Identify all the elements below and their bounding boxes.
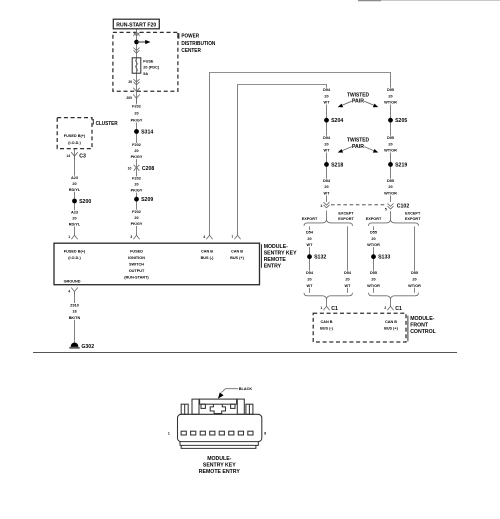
wire label D55 20 WT/OR top bbox=[384, 88, 397, 105]
svg-text:C208: C208 bbox=[142, 166, 155, 172]
svg-text:20: 20 bbox=[72, 217, 76, 221]
svg-text:REMOTE: REMOTE bbox=[264, 257, 287, 263]
svg-text:20: 20 bbox=[307, 277, 311, 281]
svg-text:1: 1 bbox=[320, 306, 322, 310]
connector left tall tab bbox=[192, 399, 199, 414]
svg-text:MODULE-: MODULE- bbox=[410, 316, 434, 322]
svg-text:4: 4 bbox=[68, 289, 70, 293]
label export (D54) bbox=[302, 217, 318, 221]
svg-text:FUSED B(+): FUSED B(+) bbox=[64, 249, 86, 253]
pin name CAN B bus(+) bbox=[230, 249, 245, 260]
label except export (D54) bbox=[338, 212, 354, 221]
merge brace D54 bbox=[304, 293, 353, 299]
wire: run-start F20 feed down through PDC fuse to SKREEM pin 3 bbox=[136, 29, 138, 232]
svg-text:WT/OR: WT/OR bbox=[384, 192, 397, 196]
section divider rule bbox=[33, 352, 457, 354]
svg-text:S204: S204 bbox=[331, 118, 343, 124]
wire label D55 20 WT/OR low bbox=[384, 179, 397, 196]
svg-text:SENTRY KEY: SENTRY KEY bbox=[264, 250, 297, 256]
wire label F202 20 PK/GY (4) bbox=[130, 210, 143, 226]
svg-text:A23: A23 bbox=[71, 176, 78, 180]
svg-text:REMOTE ENTRY: REMOTE ENTRY bbox=[199, 469, 241, 475]
svg-text:D55: D55 bbox=[370, 271, 377, 275]
svg-text:IGNITION: IGNITION bbox=[128, 256, 145, 260]
svg-text:(I.O.D.): (I.O.D.) bbox=[68, 256, 81, 260]
svg-text:200: 200 bbox=[126, 96, 132, 100]
splice S218 bbox=[324, 162, 343, 168]
label export (D55) bbox=[366, 217, 382, 221]
svg-text:PK/GY: PK/GY bbox=[131, 155, 143, 159]
wire: merge brace to FCM pin 2 bbox=[390, 299, 392, 303]
connector skirt step 2 bbox=[181, 445, 256, 448]
arrow out of PDC box bbox=[133, 88, 139, 92]
svg-text:CENTER: CENTER bbox=[181, 48, 201, 54]
svg-text:BUS (+): BUS (+) bbox=[384, 327, 399, 331]
svg-text:CAN B: CAN B bbox=[201, 249, 213, 253]
svg-text:EXPORT: EXPORT bbox=[405, 217, 421, 221]
connector fork 200 bbox=[126, 94, 139, 103]
svg-text:14: 14 bbox=[66, 154, 70, 158]
svg-text:8: 8 bbox=[264, 432, 266, 436]
connector right outer tab bbox=[246, 404, 253, 414]
svg-text:WT: WT bbox=[324, 192, 331, 196]
svg-text:CONTROL: CONTROL bbox=[410, 329, 436, 335]
wire label D55 20 WT/OR lower b bbox=[408, 271, 421, 288]
svg-text:TWISTED: TWISTED bbox=[347, 92, 369, 98]
wire: riser from SKREEM pin 7 up and over to D54 chain down to C102 bbox=[238, 85, 327, 232]
label power distribution center bbox=[177, 34, 216, 54]
svg-text:WT: WT bbox=[307, 284, 314, 288]
wire label F202 20 PK/GY (2) bbox=[130, 143, 143, 159]
svg-text:20: 20 bbox=[371, 237, 375, 241]
merge brace D55 bbox=[369, 293, 419, 299]
svg-text:5: 5 bbox=[385, 207, 387, 211]
svg-text:10: 10 bbox=[128, 167, 132, 171]
svg-text:SWITCH: SWITCH bbox=[129, 263, 144, 267]
svg-text:20: 20 bbox=[412, 277, 416, 281]
label cluster bbox=[93, 119, 117, 127]
wire: except-export branch D54 bbox=[347, 226, 349, 292]
label module sentry key remote entry bbox=[262, 244, 298, 270]
connector left outer tab bbox=[181, 404, 188, 414]
splice S132 bbox=[307, 254, 326, 260]
cluster pin label fused B+ IOD bbox=[64, 134, 86, 145]
svg-text:WT: WT bbox=[324, 101, 331, 105]
svg-text:20: 20 bbox=[134, 183, 138, 187]
svg-text:C102: C102 bbox=[397, 203, 410, 209]
wire: export branch D55 bbox=[373, 226, 375, 292]
label except export (D55) bbox=[405, 212, 421, 221]
svg-text:4: 4 bbox=[203, 235, 205, 239]
wire label A23 20 RD/YL (1) bbox=[68, 176, 81, 192]
svg-text:S314: S314 bbox=[141, 129, 153, 135]
svg-text:G302: G302 bbox=[81, 344, 94, 350]
svg-text:BUS (+): BUS (+) bbox=[230, 256, 245, 260]
pin name ground bbox=[64, 280, 81, 284]
svg-text:A23: A23 bbox=[71, 211, 78, 215]
svg-text:ENTRY: ENTRY bbox=[264, 264, 282, 270]
svg-text:D55: D55 bbox=[411, 271, 418, 275]
svg-text:20: 20 bbox=[371, 277, 375, 281]
wire: cluster fused B+ down to SKREEM pin 1 bbox=[74, 149, 76, 232]
svg-text:WT: WT bbox=[307, 243, 314, 247]
svg-text:MODULE-: MODULE- bbox=[207, 456, 231, 462]
pin name fused B+ IOD bbox=[64, 249, 86, 260]
svg-text:PK/GY: PK/GY bbox=[131, 189, 143, 193]
connector C102 pin 4 symbol bbox=[324, 202, 330, 208]
wire label D54 20 WT low bbox=[322, 179, 331, 196]
wire label D55 20 WT/OR lower a bbox=[367, 271, 380, 288]
svg-text:D54: D54 bbox=[344, 271, 352, 275]
module front control dashed box bbox=[313, 313, 406, 342]
svg-text:FRONT: FRONT bbox=[410, 322, 429, 328]
svg-text:EXPORT: EXPORT bbox=[302, 217, 318, 221]
svg-text:GROUND: GROUND bbox=[64, 280, 81, 284]
connector top plate bbox=[200, 399, 237, 404]
svg-text:1: 1 bbox=[168, 432, 170, 436]
svg-text:S219: S219 bbox=[395, 162, 407, 168]
wire: except-export branch D55 bbox=[414, 226, 416, 292]
svg-text:RUN-START F20: RUN-START F20 bbox=[116, 22, 156, 28]
module sentry key remote entry box bbox=[54, 243, 260, 285]
pin name fused ignition switch output run-start bbox=[124, 249, 149, 279]
svg-text:F202: F202 bbox=[132, 177, 141, 181]
svg-text:20: 20 bbox=[134, 111, 138, 115]
in-line connector marker above fuse bbox=[134, 48, 140, 54]
svg-text:20: 20 bbox=[324, 94, 328, 98]
fuse F20 5A bbox=[132, 58, 160, 76]
svg-text:WT/OR: WT/OR bbox=[384, 101, 397, 105]
svg-text:D54: D54 bbox=[323, 88, 331, 92]
splice S205 bbox=[388, 118, 407, 124]
wire: C102 pin5 to split brace bbox=[390, 211, 392, 220]
svg-text:PAIR: PAIR bbox=[352, 99, 364, 105]
svg-text:CAN B: CAN B bbox=[320, 320, 332, 324]
svg-text:20: 20 bbox=[307, 237, 311, 241]
svg-text:FUSED B(+): FUSED B(+) bbox=[64, 134, 86, 138]
svg-text:WT/OR: WT/OR bbox=[384, 149, 397, 153]
connector C102 dashed gang line bbox=[331, 204, 386, 206]
svg-text:BUS (-): BUS (-) bbox=[320, 327, 334, 331]
connector right tall tab bbox=[237, 399, 244, 414]
svg-text:WT/OR: WT/OR bbox=[408, 284, 421, 288]
wire: SKREEM ground pin to G302 bbox=[74, 292, 76, 343]
connector marker pin 20 at PDC exit bbox=[128, 80, 132, 84]
svg-text:PK/GY: PK/GY bbox=[131, 222, 143, 226]
wire label D54 20 WT lower b bbox=[343, 271, 352, 288]
SKREEM pin 3 bbox=[130, 232, 139, 240]
connector C102 pin 5 symbol bbox=[388, 203, 394, 209]
svg-text:F202: F202 bbox=[132, 210, 141, 214]
svg-text:3: 3 bbox=[130, 235, 132, 239]
junction node with feed arrow bbox=[134, 40, 150, 45]
cluster dashed box bbox=[57, 118, 92, 149]
svg-text:7: 7 bbox=[231, 235, 233, 239]
svg-text:MODULE-: MODULE- bbox=[264, 244, 288, 250]
svg-text:C1: C1 bbox=[331, 306, 338, 312]
splice S314 bbox=[134, 129, 153, 135]
svg-text:S132: S132 bbox=[314, 255, 326, 261]
wire label Z910 18 BK/TN bbox=[68, 303, 81, 320]
wire label D54 20 WT lower a bbox=[305, 271, 314, 288]
svg-text:F202: F202 bbox=[132, 143, 141, 147]
in-line connector marker below fuse bbox=[134, 79, 140, 85]
svg-text:18: 18 bbox=[72, 310, 76, 314]
svg-text:TWISTED: TWISTED bbox=[347, 138, 369, 144]
pin name CAN B bus(+) FCM bbox=[384, 320, 399, 331]
wire label D54 20 WT export upper bbox=[305, 230, 314, 247]
wire: C102 pin4 to split brace bbox=[326, 211, 328, 220]
svg-text:D54: D54 bbox=[306, 230, 314, 234]
svg-text:C3: C3 bbox=[79, 154, 86, 160]
twisted pair label 1 bbox=[338, 92, 379, 107]
connector cavities 1-8 bbox=[181, 431, 253, 435]
svg-text:D54: D54 bbox=[323, 136, 331, 140]
svg-text:EXCEPT: EXCEPT bbox=[338, 212, 354, 216]
FCM connector C1 pin 1 bbox=[320, 303, 338, 312]
arrow into run-start box at PDC border bbox=[133, 32, 139, 36]
svg-text:S205: S205 bbox=[395, 118, 407, 124]
svg-text:2: 2 bbox=[384, 306, 386, 310]
wire label D55 20 WT/OR mid bbox=[384, 136, 397, 153]
wire label F202 20 PK/GY (3) bbox=[130, 176, 143, 192]
pin name CAN B bus(-) FCM bbox=[320, 320, 334, 331]
SKREEM pin 1 bbox=[68, 232, 77, 240]
svg-text:WT: WT bbox=[345, 284, 352, 288]
splice S219 bbox=[388, 162, 407, 168]
svg-text:RD/YL: RD/YL bbox=[69, 188, 81, 192]
svg-text:4: 4 bbox=[321, 204, 323, 208]
svg-text:SENTRY KEY: SENTRY KEY bbox=[203, 463, 236, 469]
svg-text:D54: D54 bbox=[323, 179, 331, 183]
svg-text:WT/OR: WT/OR bbox=[367, 243, 380, 247]
svg-text:20: 20 bbox=[388, 94, 392, 98]
svg-text:CAN B: CAN B bbox=[385, 320, 397, 324]
ground G302 bbox=[69, 343, 94, 351]
svg-text:F202: F202 bbox=[132, 105, 141, 109]
svg-text:FUSE: FUSE bbox=[143, 60, 154, 64]
splice S209 bbox=[134, 197, 153, 203]
wire: riser from SKREEM pin 4 up and over to D55 chain down to C102 bbox=[210, 73, 391, 232]
split brace D54 bbox=[304, 220, 353, 226]
svg-text:S133: S133 bbox=[378, 255, 390, 261]
svg-text:POWER: POWER bbox=[181, 34, 199, 40]
svg-text:C1: C1 bbox=[395, 306, 402, 312]
component box RUN-START F20 bbox=[113, 19, 159, 29]
twisted pair label 2 bbox=[338, 138, 379, 153]
FCM connector C1 pin 2 bbox=[384, 303, 402, 312]
wire label A23 20 RD/YL (2) bbox=[68, 210, 81, 226]
wire label D55 20 WT/OR export upper bbox=[367, 230, 380, 247]
svg-text:5A: 5A bbox=[143, 72, 148, 76]
label module front control bbox=[408, 316, 437, 342]
svg-text:CAN B: CAN B bbox=[231, 249, 243, 253]
svg-text:(RUN-START): (RUN-START) bbox=[124, 276, 149, 280]
svg-text:BK/TN: BK/TN bbox=[69, 316, 81, 320]
wire label F202 20 PK/GY (1) bbox=[130, 104, 143, 122]
split brace D55 bbox=[369, 220, 419, 226]
faint page border top right bbox=[358, 0, 381, 2]
svg-text:S209: S209 bbox=[141, 197, 153, 203]
svg-text:EXPORT: EXPORT bbox=[366, 217, 382, 221]
splice S133 bbox=[371, 254, 390, 260]
svg-text:20: 20 bbox=[134, 149, 138, 153]
svg-text:EXPORT: EXPORT bbox=[338, 217, 354, 221]
svg-text:20: 20 bbox=[324, 142, 328, 146]
svg-text:20: 20 bbox=[388, 142, 392, 146]
pin name CAN B bus(-) bbox=[201, 249, 215, 260]
svg-text:PK/GY: PK/GY bbox=[131, 119, 143, 123]
svg-text:CLUSTER: CLUSTER bbox=[96, 121, 118, 127]
svg-text:S218: S218 bbox=[331, 162, 343, 168]
svg-text:20: 20 bbox=[324, 185, 328, 189]
caption module sentry key remote entry bbox=[199, 456, 241, 475]
svg-text:D55: D55 bbox=[387, 179, 394, 183]
svg-text:PAIR: PAIR bbox=[352, 144, 364, 150]
svg-text:20: 20 bbox=[72, 182, 76, 186]
wire label D54 20 WT mid bbox=[322, 136, 331, 153]
connector face view: label BLACK with arrow bbox=[218, 387, 252, 399]
svg-text:WT/OR: WT/OR bbox=[367, 284, 380, 288]
svg-text:FUSED: FUSED bbox=[130, 249, 143, 253]
SKREEM pin 7 bbox=[231, 232, 240, 240]
connector skirt step 1 bbox=[180, 442, 258, 446]
svg-text:EXCEPT: EXCEPT bbox=[405, 212, 421, 216]
svg-text:20 (PDC): 20 (PDC) bbox=[143, 66, 160, 70]
svg-text:Z910: Z910 bbox=[70, 303, 79, 307]
connector center latch bbox=[210, 404, 225, 413]
in-line connector C208 bbox=[128, 165, 155, 172]
svg-text:BLACK: BLACK bbox=[239, 387, 253, 391]
svg-text:20: 20 bbox=[128, 80, 132, 84]
splice S200 bbox=[72, 199, 91, 205]
svg-text:RD/YL: RD/YL bbox=[69, 223, 81, 227]
svg-text:OUTPUT: OUTPUT bbox=[129, 269, 145, 273]
connector body bbox=[178, 414, 262, 441]
svg-text:20: 20 bbox=[134, 216, 138, 220]
SKREEM ground pin fork bbox=[68, 288, 78, 295]
svg-text:20: 20 bbox=[345, 277, 349, 281]
wire: merge brace to FCM pin 1 bbox=[326, 299, 328, 303]
svg-text:(I.O.D.): (I.O.D.) bbox=[68, 141, 81, 145]
splice S204 bbox=[324, 118, 343, 124]
SKREEM pin 4 bbox=[203, 232, 212, 240]
svg-text:D54: D54 bbox=[306, 271, 314, 275]
svg-text:DISTRIBUTION: DISTRIBUTION bbox=[181, 41, 215, 47]
svg-text:D55: D55 bbox=[370, 230, 377, 234]
connector plate end lugs bbox=[201, 404, 205, 408]
wire: export branch D54 bbox=[309, 226, 311, 292]
svg-text:D55: D55 bbox=[387, 88, 394, 92]
wire label D54 20 WT top bbox=[322, 88, 331, 105]
connector C3 pin 14 bbox=[66, 152, 86, 161]
svg-text:1: 1 bbox=[68, 235, 70, 239]
power distribution center dashed box bbox=[113, 32, 178, 91]
svg-text:S200: S200 bbox=[79, 199, 91, 205]
svg-text:20: 20 bbox=[388, 185, 392, 189]
svg-text:D55: D55 bbox=[387, 136, 394, 140]
svg-text:BUS (-): BUS (-) bbox=[201, 256, 215, 260]
svg-text:WT: WT bbox=[324, 149, 331, 153]
